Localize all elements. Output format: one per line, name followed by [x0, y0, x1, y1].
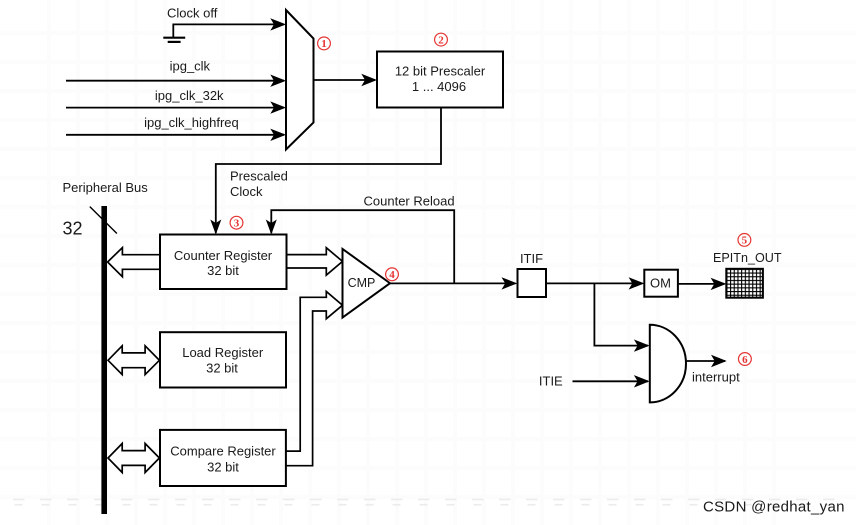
svg-text:Prescaled: Prescaled	[230, 169, 288, 184]
svg-text:1: 1	[321, 38, 327, 50]
svg-text:ITIE: ITIE	[539, 374, 563, 389]
svg-text:Clock: Clock	[230, 184, 263, 199]
svg-text:12 bit Prescaler: 12 bit Prescaler	[395, 64, 486, 79]
svg-text:Clock off: Clock off	[167, 6, 218, 21]
svg-text:Counter Reload: Counter Reload	[364, 193, 455, 208]
svg-text:ITIF: ITIF	[520, 251, 543, 266]
svg-text:6: 6	[742, 354, 748, 366]
svg-text:ipg_clk_32k: ipg_clk_32k	[155, 88, 224, 103]
svg-text:ipg_clk_highfreq: ipg_clk_highfreq	[144, 115, 239, 130]
svg-text:EPITn_OUT: EPITn_OUT	[713, 251, 782, 265]
svg-text:Compare Register: Compare Register	[170, 443, 276, 458]
svg-text:CSDN @redhat_yan: CSDN @redhat_yan	[703, 499, 845, 516]
svg-text:Peripheral Bus: Peripheral Bus	[63, 180, 149, 195]
svg-text:OM: OM	[650, 276, 671, 291]
svg-text:Load Register: Load Register	[182, 345, 264, 360]
svg-text:32 bit: 32 bit	[206, 360, 238, 375]
svg-text:4: 4	[389, 269, 395, 281]
svg-text:Counter Register: Counter Register	[174, 248, 273, 263]
svg-text:5: 5	[742, 235, 748, 247]
svg-text:3: 3	[234, 218, 240, 230]
svg-text:32 bit: 32 bit	[207, 263, 239, 278]
svg-text:interrupt: interrupt	[692, 370, 740, 385]
svg-text:2: 2	[438, 34, 444, 46]
svg-text:32 bit: 32 bit	[207, 459, 239, 474]
svg-text:1 ... 4096: 1 ... 4096	[412, 79, 466, 94]
svg-text:32: 32	[63, 218, 83, 238]
svg-text:CMP: CMP	[348, 276, 376, 290]
svg-text:ipg_clk: ipg_clk	[170, 59, 211, 74]
